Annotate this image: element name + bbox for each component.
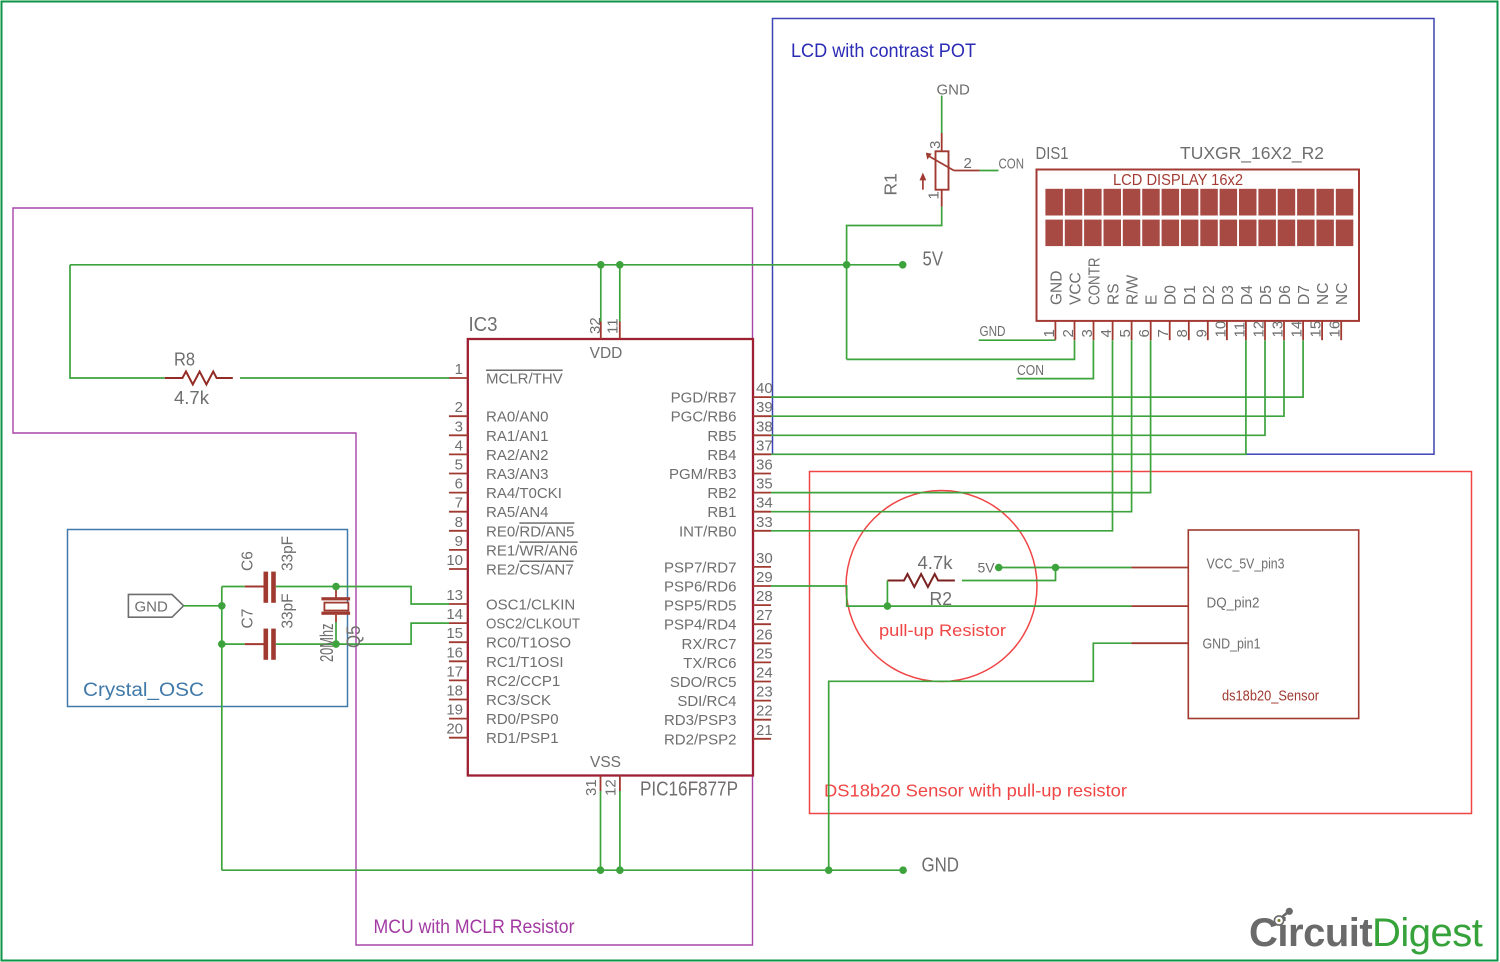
IC3 pin 25 (TX/RC6): [683, 645, 773, 672]
IC3 pin 30 (PSP7/RD7): [664, 550, 773, 577]
svg-text:34: 34: [756, 495, 773, 512]
wire D5: IC3 pin38 to DIS1 pin12: [771, 340, 1265, 435]
wire CON to DIS1 pin3: [1017, 340, 1094, 378]
svg-text:29: 29: [756, 569, 773, 586]
svg-text:38: 38: [756, 418, 773, 435]
svg-text:20: 20: [446, 721, 463, 738]
svg-text:24: 24: [756, 665, 773, 682]
DIS1 pin 11 (D4): [1231, 285, 1256, 340]
IC3 pin 12 (VSS): [603, 776, 620, 797]
DIS1 LCD cell grid: [1045, 189, 1353, 246]
IC3 pin 13 (OSC1/CLKIN): [446, 587, 575, 614]
svg-text:VDD: VDD: [590, 345, 623, 362]
DIS1 pin 4 (RS): [1098, 283, 1123, 340]
wire R/W: IC3 pin34 to DIS1 pin5: [771, 340, 1132, 512]
svg-text:3: 3: [927, 141, 944, 149]
IC3 pin 27 (PSP4/RD4): [664, 607, 773, 634]
capacitor C7: [245, 629, 276, 660]
IC3 pin 38 (RB5): [707, 418, 772, 445]
wire GND rail horizontal: [222, 869, 903, 871]
svg-text:20Mhz: 20Mhz: [317, 624, 337, 663]
svg-text:R1: R1: [881, 173, 901, 195]
DIS1 pin 6 (E): [1136, 295, 1161, 341]
DIS1 pin 10 (D3): [1212, 285, 1237, 340]
svg-text:D4: D4: [1239, 285, 1256, 305]
wire RS: IC3 pin33 to DIS1 pin4: [771, 340, 1113, 531]
DIS1 pin 16 (NC): [1327, 283, 1352, 341]
svg-text:SDI/RC4: SDI/RC4: [677, 693, 736, 710]
IC3 pin 4 (RA2/AN2): [449, 437, 549, 464]
svg-text:GND: GND: [980, 323, 1006, 340]
svg-text:26: 26: [756, 626, 773, 643]
svg-text:12: 12: [1251, 321, 1268, 338]
svg-text:OSC2/CLKOUT: OSC2/CLKOUT: [486, 616, 580, 633]
DIS1 pin 2 (VCC): [1060, 272, 1085, 340]
svg-text:33: 33: [756, 514, 773, 531]
svg-text:5V: 5V: [923, 249, 944, 271]
ground flag symbol GND (crystal): [128, 594, 183, 617]
svg-text:37: 37: [756, 437, 773, 454]
svg-text:22: 22: [756, 703, 773, 720]
svg-text:5V: 5V: [978, 560, 996, 576]
svg-text:CONTR: CONTR: [1087, 258, 1104, 306]
svg-text:RE1/WR/AN6: RE1/WR/AN6: [486, 542, 578, 559]
svg-text:RA5/AN4: RA5/AN4: [486, 504, 549, 521]
wire GND flag to junction: [184, 605, 222, 607]
IC3 pin 9 (RE1/WR/AN6): [449, 533, 578, 560]
junction dot GND flag: [218, 602, 226, 610]
capacitor C6: [245, 572, 276, 603]
node GND rail end dot: [899, 866, 907, 874]
DIS1 pin 5 (R/W): [1117, 275, 1142, 341]
DIS1 pin 12 (D5): [1251, 285, 1276, 340]
svg-text:RS: RS: [1106, 283, 1123, 305]
DIS1 pin 13 (D6): [1270, 285, 1295, 340]
junction dot GND/sensor: [825, 866, 833, 874]
LCD display DIS1 body: [1037, 170, 1360, 321]
wire D6: IC3 pin39 to DIS1 pin13: [771, 340, 1284, 416]
resistor R2 zigzag: [887, 574, 954, 587]
sensor pin stub GND_pin1: [1132, 642, 1189, 644]
svg-text:D0: D0: [1163, 285, 1180, 305]
svg-text:RX/RC7: RX/RC7: [681, 636, 736, 653]
svg-text:21: 21: [756, 722, 773, 739]
IC3 pin 17 (RC2/CCP1): [446, 663, 560, 690]
svg-text:33pF: 33pF: [280, 594, 297, 629]
sensor pin stub DQ_pin2: [1132, 605, 1189, 607]
svg-text:C7: C7: [240, 609, 257, 629]
svg-text:RA2/AN2: RA2/AN2: [486, 447, 549, 464]
wire DQ: IC3 pin29 to sensor DQ_pin2: [771, 586, 1132, 606]
svg-text:1: 1: [455, 361, 463, 378]
svg-text:36: 36: [756, 457, 773, 474]
svg-text:ds18b20_Sensor: ds18b20_Sensor: [1222, 688, 1319, 705]
IC3 pin 6 (RA4/T0CKI): [449, 476, 562, 503]
svg-text:10: 10: [1212, 321, 1229, 338]
svg-text:CON: CON: [999, 156, 1025, 173]
IC3 pin 29 (PSP6/RD6): [664, 569, 773, 596]
wire R2 right lead to 5V node: [962, 568, 1056, 581]
wire OSC2 branch (C7 bottom): [222, 623, 449, 644]
DIS1 pin 9 (D2): [1193, 285, 1218, 340]
svg-text:CON: CON: [1017, 362, 1044, 379]
svg-text:D6: D6: [1277, 285, 1294, 305]
IC3 pin 33 (INT/RB0): [679, 514, 773, 541]
IC3 pin 14 (OSC2/CLKOUT): [446, 606, 580, 633]
microcontroller IC3 body: [468, 339, 753, 776]
svg-text:RD3/PSP3: RD3/PSP3: [664, 712, 737, 729]
svg-text:RB5: RB5: [707, 428, 736, 445]
junction dot GND/VSS31: [597, 866, 605, 874]
wire 5V left drop to R8: [70, 265, 165, 378]
svg-text:D5: D5: [1258, 285, 1275, 305]
svg-text:TUXGR_16X2_R2: TUXGR_16X2_R2: [1180, 143, 1324, 164]
svg-text:PSP5/RD5: PSP5/RD5: [664, 598, 737, 615]
svg-text:4: 4: [1098, 329, 1115, 337]
svg-text:13: 13: [446, 587, 463, 604]
svg-text:SDO/RC5: SDO/RC5: [670, 674, 737, 691]
wire R1 wiper to CON: [980, 170, 999, 172]
resistor R8 leads and zigzag: [165, 372, 233, 385]
svg-text:E: E: [1144, 295, 1161, 305]
svg-text:IC3: IC3: [469, 314, 498, 336]
svg-text:9: 9: [1193, 329, 1210, 337]
wire E: IC3 pin35 to DIS1 pin6: [771, 340, 1151, 492]
svg-text:D2: D2: [1201, 285, 1218, 305]
IC3 pin 10 (RE2/CS/AN7): [446, 552, 573, 579]
IC3 pin 24 (SDO/RC5): [670, 665, 773, 692]
DIS1 pin 1 (GND): [1041, 271, 1066, 341]
svg-text:5: 5: [1117, 329, 1134, 337]
wire R1 pin3 to GND label: [941, 96, 943, 133]
svg-text:4: 4: [455, 437, 463, 454]
IC3 pin 8 (RE0/RD/AN5): [449, 514, 574, 541]
svg-text:17: 17: [446, 663, 463, 680]
svg-text:10: 10: [446, 552, 463, 569]
svg-text:3: 3: [455, 418, 463, 435]
svg-text:31: 31: [583, 779, 600, 796]
svg-text:PGM/RB3: PGM/RB3: [669, 466, 737, 483]
junction dot crystal bottom: [332, 640, 340, 648]
svg-text:RD2/PSP2: RD2/PSP2: [664, 731, 737, 748]
svg-text:19: 19: [446, 702, 463, 719]
svg-text:16: 16: [1327, 321, 1344, 338]
svg-text:23: 23: [756, 684, 773, 701]
DIS1 pin 14 (D7): [1289, 285, 1314, 340]
IC3 pin 35 (RB2): [707, 476, 772, 503]
node 5V dot (sensor): [995, 564, 1003, 572]
junction dot C7 left: [218, 640, 226, 648]
DIS1 pin 3 (CONTR): [1079, 258, 1104, 341]
crystal Q5: [321, 590, 350, 622]
sensor module ds18b20_Sensor body: [1188, 530, 1358, 719]
svg-text:6: 6: [455, 476, 463, 493]
IC3 pin 20 (RD1/PSP1): [446, 721, 558, 748]
IC3 pin 26 (RX/RC7): [681, 626, 772, 653]
IC3 pin 37 (RB4): [707, 437, 772, 464]
highlight circle: pull-up Resistor: [846, 491, 1037, 682]
IC3 pin 3 (RA1/AN1): [449, 418, 549, 445]
svg-text:GND: GND: [1048, 271, 1065, 305]
svg-text:25: 25: [756, 645, 773, 662]
IC3 pin 22 (RD3/PSP3): [664, 703, 773, 730]
block frame: DS18b20 Sensor with pull-up resistor: [810, 472, 1472, 814]
IC3 pin 16 (RC1/T1OSI): [446, 644, 563, 671]
svg-text:RC0/T1OSO: RC0/T1OSO: [486, 635, 571, 652]
svg-text:8: 8: [455, 514, 463, 531]
svg-text:40: 40: [756, 380, 773, 397]
IC3 pin 36 (PGM/RB3): [669, 457, 773, 484]
wire R2 left lead down to DQ: [886, 581, 888, 607]
svg-text:C6: C6: [240, 551, 257, 571]
svg-text:D1: D1: [1182, 285, 1199, 305]
svg-text:RB1: RB1: [707, 504, 736, 521]
svg-text:LCD DISPLAY 16x2: LCD DISPLAY 16x2: [1113, 172, 1243, 189]
wire R8 to IC3 pin 1: [240, 377, 449, 379]
IC3 pin 39 (PGC/RB6): [671, 399, 773, 426]
svg-text:D7: D7: [1296, 285, 1313, 305]
svg-text:14: 14: [446, 606, 463, 623]
svg-text:RE2/CS/AN7: RE2/CS/AN7: [486, 562, 574, 579]
svg-text:DQ_pin2: DQ_pin2: [1207, 595, 1260, 612]
svg-text:7: 7: [455, 495, 463, 512]
svg-text:30: 30: [756, 550, 773, 567]
IC3 pin 18 (RC3/SCK): [446, 683, 551, 710]
svg-text:NC: NC: [1315, 283, 1332, 305]
svg-text:Q5: Q5: [344, 626, 365, 649]
svg-text:PSP4/RD4: PSP4/RD4: [664, 617, 737, 634]
wire crystal top to C6 node: [335, 587, 337, 591]
wire D7: IC3 pin40 to DIS1 pin14: [771, 340, 1303, 397]
wire VDD pin32 to 5V rail: [600, 265, 602, 322]
svg-text:13: 13: [1270, 321, 1287, 338]
svg-text:RA0/AN0: RA0/AN0: [486, 409, 549, 426]
svg-text:MCU with MCLR Resistor: MCU with MCLR Resistor: [374, 917, 576, 938]
wire VSS pin31 to GND rail: [600, 791, 602, 870]
svg-text:33pF: 33pF: [280, 536, 297, 571]
junction dot 5V/VDD11: [616, 261, 624, 269]
svg-text:28: 28: [756, 588, 773, 605]
svg-text:RB4: RB4: [707, 447, 736, 464]
svg-text:35: 35: [756, 476, 773, 493]
junction dot 5V/R2: [1052, 564, 1060, 572]
svg-text:RA3/AN3: RA3/AN3: [486, 466, 549, 483]
IC3 pin 5 (RA3/AN3): [449, 457, 549, 484]
svg-text:PGD/RB7: PGD/RB7: [671, 390, 737, 407]
svg-text:RA4/T0CKI: RA4/T0CKI: [486, 485, 562, 502]
IC3 pin 31 (VSS): [583, 776, 601, 797]
DIS1 pin 7 (D0): [1155, 285, 1180, 340]
svg-text:Digest: Digest: [1372, 911, 1483, 955]
svg-text:14: 14: [1289, 321, 1306, 338]
wire VSS pin12 to GND rail: [619, 791, 621, 870]
sensor pin stub VCC_5V_pin3: [1132, 567, 1189, 569]
svg-text:1: 1: [1041, 329, 1058, 337]
junction dot 5V/R1-LCD branch: [843, 261, 851, 269]
svg-text:NC: NC: [1334, 283, 1351, 305]
IC3 pin 2 (RA0/AN0): [449, 399, 549, 426]
svg-text:R8: R8: [174, 349, 195, 370]
wire sensor GND_pin1 to GND rail: [829, 643, 1132, 870]
wire 5V node to sensor VCC: [999, 567, 1132, 569]
block frame: MCU with MCLR Resistor: [13, 208, 753, 945]
svg-text:PGC/RB6: PGC/RB6: [671, 409, 737, 426]
svg-text:Crystal_OSC: Crystal_OSC: [83, 680, 204, 701]
svg-text:6: 6: [1136, 329, 1153, 337]
junction dot GND/VSS12: [616, 866, 624, 874]
svg-text:PSP7/RD7: PSP7/RD7: [664, 559, 737, 576]
svg-text:RB2: RB2: [707, 485, 736, 502]
svg-text:OSC1/CLKIN: OSC1/CLKIN: [486, 597, 575, 614]
IC3 pin 1 (MCLR/THV): [449, 361, 563, 388]
svg-text:5: 5: [455, 457, 463, 474]
svg-text:RE0/RD/AN5: RE0/RD/AN5: [486, 523, 574, 540]
junction dot crystal top: [332, 583, 340, 591]
svg-text:R/W: R/W: [1125, 275, 1142, 306]
svg-text:39: 39: [756, 399, 773, 416]
svg-text:3: 3: [1079, 329, 1096, 337]
CircuitDigest logo: [1249, 908, 1483, 955]
svg-text:RA1/AN1: RA1/AN1: [486, 428, 549, 445]
svg-text:4.7k: 4.7k: [918, 552, 954, 573]
svg-text:9: 9: [455, 533, 463, 550]
svg-text:18: 18: [446, 683, 463, 700]
svg-text:RD0/PSP0: RD0/PSP0: [486, 711, 559, 728]
IC3 pin 7 (RA5/AN4): [449, 495, 549, 522]
DIS1 pin 15 (NC): [1308, 283, 1333, 341]
svg-text:Circuit: Circuit: [1249, 911, 1372, 955]
svg-text:RC1/T1OSI: RC1/T1OSI: [486, 654, 564, 671]
svg-text:2: 2: [455, 399, 463, 416]
junction dot R2/DQ: [884, 602, 892, 610]
svg-text:MCLR/THV: MCLR/THV: [486, 371, 563, 388]
svg-text:RD1/PSP1: RD1/PSP1: [486, 730, 559, 747]
IC3 pin 11 (VDD): [605, 318, 622, 339]
junction dot 5V/VDD32: [597, 261, 605, 269]
block frame: LCD with contrast POT: [773, 19, 1435, 455]
IC3 pin 19 (RD0/PSP0): [446, 702, 558, 729]
node 5V rail end dot: [899, 261, 907, 269]
svg-text:27: 27: [756, 607, 773, 624]
svg-text:PIC16F877P: PIC16F877P: [640, 779, 738, 801]
wire GND to DIS1 pin1: [979, 339, 1056, 341]
svg-text:TX/RC6: TX/RC6: [683, 655, 736, 672]
svg-text:7: 7: [1155, 329, 1172, 337]
svg-text:1: 1: [926, 191, 943, 199]
svg-text:DS18b20 Sensor with pull-up re: DS18b20 Sensor with pull-up resistor: [824, 781, 1127, 801]
svg-text:8: 8: [1174, 329, 1191, 337]
svg-text:2: 2: [1060, 329, 1077, 337]
svg-text:11: 11: [1231, 322, 1248, 338]
svg-text:GND: GND: [922, 855, 960, 877]
svg-text:INT/RB0: INT/RB0: [679, 523, 737, 540]
svg-text:pull-up Resistor: pull-up Resistor: [879, 621, 1006, 640]
IC3 pin 23 (SDI/RC4): [677, 684, 772, 711]
svg-text:PSP6/RD6: PSP6/RD6: [664, 579, 737, 596]
svg-text:LCD with contrast POT: LCD with contrast POT: [791, 41, 976, 62]
svg-text:GND: GND: [135, 599, 169, 616]
IC3 pin 28 (PSP5/RD5): [664, 588, 773, 615]
svg-text:16: 16: [446, 644, 463, 661]
wire left vertical down to GND rail: [221, 644, 223, 870]
svg-text:12: 12: [603, 779, 620, 796]
svg-text:RC3/SCK: RC3/SCK: [486, 692, 551, 709]
svg-text:GND_pin1: GND_pin1: [1203, 636, 1261, 653]
potentiometer R1: [920, 133, 980, 207]
svg-text:2: 2: [964, 155, 972, 172]
svg-text:DIS1: DIS1: [1036, 143, 1069, 163]
wire D4: IC3 pin37 to DIS1 pin11: [771, 340, 1246, 454]
svg-text:VSS: VSS: [590, 754, 621, 771]
IC3 pin 40 (PGD/RB7): [671, 380, 773, 407]
IC3 pin 32 (VDD): [587, 317, 604, 339]
svg-text:RC2/CCP1: RC2/CCP1: [486, 673, 560, 690]
wire R1 pin1 down to 5V rail: [847, 207, 942, 360]
DIS1 pin 8 (D1): [1174, 285, 1199, 340]
wire OSC1 branch (C6 top): [222, 587, 449, 605]
IC3 pin 34 (RB1): [707, 495, 772, 522]
svg-text:4.7k: 4.7k: [174, 387, 210, 408]
wire 5V rail horizontal: [70, 264, 903, 266]
wire VDD pin11 to 5V rail: [619, 265, 621, 322]
block frame: Crystal_OSC: [68, 530, 348, 707]
svg-text:15: 15: [1308, 321, 1325, 338]
svg-text:VCC: VCC: [1068, 272, 1085, 305]
wire crystal bottom to C7 node: [335, 622, 337, 644]
IC3 pin 15 (RC0/T1OSO): [446, 625, 571, 652]
wire 5V branch to DIS1 pin2 VCC: [847, 340, 1075, 359]
wire crystal left vertical: [221, 587, 223, 645]
IC3 pin 21 (RD2/PSP2): [664, 722, 773, 749]
svg-text:D3: D3: [1220, 285, 1237, 305]
svg-text:15: 15: [446, 625, 463, 642]
svg-text:VCC_5V_pin3: VCC_5V_pin3: [1207, 556, 1285, 573]
